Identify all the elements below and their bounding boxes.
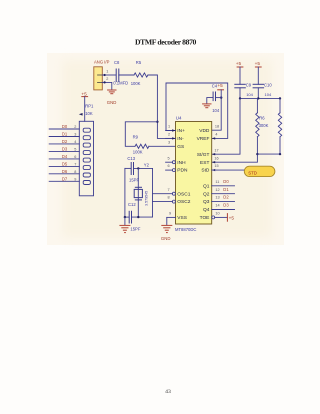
wire osc bottom node <box>125 216 129 218</box>
wire C4 left <box>215 97 221 99</box>
svg-text:EST: EST <box>200 160 209 166</box>
power +5 above C10 <box>255 61 262 85</box>
svg-text:Q3: Q3 <box>203 199 210 205</box>
svg-text:9: 9 <box>169 212 171 216</box>
svg-text:D7: D7 <box>62 176 68 181</box>
wire VSS to ground <box>166 217 168 224</box>
capacitor C10 <box>253 84 264 88</box>
svg-text:3: 3 <box>74 133 76 137</box>
wire osc left vertical <box>124 168 126 217</box>
wire D3 <box>49 150 79 152</box>
crystal Y2 <box>134 168 142 217</box>
capacitor C8 <box>116 69 119 82</box>
RP1 element 1 <box>83 128 90 132</box>
resistor R7 top lead <box>279 98 281 112</box>
ground under J1 <box>108 90 116 94</box>
scanned schematic cream background <box>47 53 284 245</box>
wire osc right vertical <box>152 168 154 217</box>
connector J1 ANG I/P body <box>94 67 103 90</box>
wire to OSC2 pin <box>153 201 173 203</box>
svg-text:D1: D1 <box>223 187 229 192</box>
svg-text:2: 2 <box>106 77 108 81</box>
wire D7 <box>49 180 79 182</box>
pin arrow EST <box>212 161 215 163</box>
svg-text:INH: INH <box>177 160 186 166</box>
svg-text:2: 2 <box>168 133 170 137</box>
svg-text:10: 10 <box>215 212 219 216</box>
svg-text:VREF: VREF <box>197 136 210 142</box>
svg-text:R5: R5 <box>136 60 142 65</box>
wire C8 to R5 <box>119 74 134 76</box>
wire IN+ to VREF loop <box>166 83 228 138</box>
svg-text:+5: +5 <box>81 92 87 97</box>
ground under crystal <box>120 217 130 233</box>
pin stub PDN <box>166 169 173 171</box>
svg-text:IN+: IN+ <box>177 128 185 134</box>
node bus left <box>239 97 241 99</box>
svg-text:IN-: IN- <box>177 136 184 142</box>
svg-text:D5: D5 <box>62 161 68 166</box>
wire D6 <box>49 173 79 175</box>
svg-text:DTMF decoder 8870: DTMF decoder 8870 <box>135 38 197 47</box>
wire C10 to bus <box>257 88 259 99</box>
svg-text:R9: R9 <box>133 135 139 140</box>
svg-text:6: 6 <box>74 155 76 159</box>
svg-text:4: 4 <box>74 140 76 144</box>
RP1 element 3 <box>83 143 90 147</box>
svg-text:STD: STD <box>248 170 257 175</box>
svg-text:OSC1: OSC1 <box>177 191 190 197</box>
wire C13 to crystal top <box>134 167 153 169</box>
svg-text:7: 7 <box>74 162 76 166</box>
svg-text:PDN: PDN <box>177 168 188 174</box>
wire C4 to ground <box>207 98 213 103</box>
pin stub IN- <box>166 137 176 139</box>
svg-text:St/GT: St/GT <box>197 152 210 158</box>
svg-text:U4: U4 <box>176 116 182 121</box>
svg-text:9: 9 <box>74 177 76 181</box>
svg-text:3: 3 <box>168 140 170 144</box>
wire Q1 <box>212 185 235 187</box>
wire Q4 <box>212 209 235 211</box>
pin arrow StGT <box>212 153 215 155</box>
svg-text:300K: 300K <box>259 123 269 128</box>
svg-text:GND: GND <box>161 236 171 241</box>
power +5 above RP1 <box>81 92 87 122</box>
RP1 element 6 <box>83 166 90 170</box>
svg-text:Q4: Q4 <box>203 207 210 213</box>
svg-text:StD: StD <box>201 168 210 174</box>
pin circle OSC2 <box>172 200 175 203</box>
svg-text:14: 14 <box>215 204 219 208</box>
svg-text:GS: GS <box>177 144 184 150</box>
IC pin names left <box>177 128 190 221</box>
power +5 above C9 <box>236 61 243 85</box>
pin arrow IN- <box>172 137 175 139</box>
pin stub INH <box>166 161 173 163</box>
resistor R5 <box>134 73 148 77</box>
svg-text:8: 8 <box>168 196 170 200</box>
resistor R6 top lead <box>256 98 258 112</box>
pin arrow IN+ <box>172 129 175 131</box>
svg-text:C12: C12 <box>128 202 136 207</box>
svg-text:+5: +5 <box>255 61 261 66</box>
wire TOE to +5 <box>215 216 228 218</box>
node at J1 pin2 <box>104 81 106 83</box>
svg-text:+5: +5 <box>229 215 235 220</box>
wire Q3 <box>212 201 235 203</box>
connector J1 pin 1 dash <box>98 74 103 76</box>
wire R6 bottom to EST <box>212 137 258 162</box>
wire VDD pin up <box>212 98 222 131</box>
svg-text:Y2: Y2 <box>144 162 150 167</box>
RP1 element 2 <box>83 136 90 140</box>
wire C9 to bus <box>239 88 241 99</box>
svg-text:GND: GND <box>107 100 117 105</box>
node crystal bottom <box>137 216 139 218</box>
connector J1 pin 2 dash <box>98 81 103 83</box>
wire D2 <box>49 143 79 145</box>
resistor pack RP1 body <box>79 121 93 196</box>
RP1 element 4 <box>83 151 90 155</box>
power +5 above C4 <box>217 83 223 98</box>
svg-text:5: 5 <box>168 156 170 160</box>
power +5 at TOE <box>227 214 234 222</box>
svg-text:104: 104 <box>212 108 220 113</box>
svg-text:13: 13 <box>215 196 219 200</box>
ground under VSS <box>162 225 172 232</box>
wire D4 <box>49 158 79 160</box>
wire Q2 <box>212 193 235 195</box>
svg-text:8: 8 <box>74 170 76 174</box>
node C4 <box>220 96 222 98</box>
node R6 StGT link <box>256 153 258 155</box>
capacitor C12 <box>129 211 131 223</box>
pin circle TOE <box>212 216 215 219</box>
svg-text:D3: D3 <box>223 203 229 208</box>
svg-text:C9: C9 <box>246 83 252 88</box>
svg-text:D4: D4 <box>62 154 68 159</box>
node at J1 pin1 <box>104 74 106 76</box>
pin arrow VREF <box>212 137 215 139</box>
svg-text:100K: 100K <box>131 81 141 86</box>
wire to OSC1 pin <box>153 193 173 195</box>
svg-text:TOE: TOE <box>200 215 210 221</box>
svg-text:VDD: VDD <box>199 128 210 134</box>
svg-text:VSS: VSS <box>177 215 187 221</box>
svg-text:ANG I/P: ANG I/P <box>94 60 110 65</box>
pin circle INH <box>172 161 175 164</box>
svg-text:7: 7 <box>168 188 170 192</box>
wire C12 to crystal bottom <box>132 216 153 218</box>
wire J1 pin2 to ground <box>102 82 112 89</box>
svg-text:10K: 10K <box>85 111 93 116</box>
resistor R7 bottom lead <box>279 137 281 154</box>
wire J1 pin1 to C8 <box>102 74 116 76</box>
svg-text:C13: C13 <box>127 156 135 161</box>
svg-text:RP1: RP1 <box>85 103 94 108</box>
RP1 element 8 <box>83 181 90 185</box>
node R9 branch <box>156 121 158 123</box>
RP1 pin1 arrow <box>79 113 83 116</box>
svg-text:104: 104 <box>265 92 272 97</box>
pin arrow STD <box>212 169 215 171</box>
pin stub IN+ <box>166 130 176 132</box>
svg-text:+5: +5 <box>217 83 223 88</box>
svg-text:16: 16 <box>214 156 218 160</box>
wire D1 <box>49 136 79 138</box>
svg-text:104: 104 <box>246 92 253 97</box>
svg-text:OSC2: OSC2 <box>177 199 190 205</box>
svg-text:D0: D0 <box>223 179 229 184</box>
wire R9 to GS pin <box>149 145 176 147</box>
pin circle OSC1 <box>172 192 175 195</box>
capacitor C13 <box>131 163 133 175</box>
ground under C4 <box>203 104 211 108</box>
svg-text:D0: D0 <box>62 124 68 129</box>
node R7 bottom <box>279 153 281 155</box>
wire R5 to IN- corner <box>148 75 176 138</box>
wire steering bus <box>240 97 280 99</box>
RP1 element 5 <box>83 158 90 162</box>
node osc ground <box>124 216 126 218</box>
svg-text:D6: D6 <box>62 169 68 174</box>
pin circle PDN <box>172 169 175 172</box>
wire R6 to R7 bottom <box>257 153 280 155</box>
svg-text:R6: R6 <box>259 115 265 120</box>
capacitor C9 <box>235 84 246 88</box>
wire STD to port <box>212 169 245 171</box>
pin stub VSS <box>167 216 176 218</box>
svg-text:3.579545: 3.579545 <box>145 191 149 206</box>
svg-text:C8: C8 <box>114 60 120 65</box>
svg-text:0.1MFD: 0.1MFD <box>113 81 128 86</box>
node bus middle <box>257 97 259 99</box>
svg-text:2: 2 <box>74 125 76 129</box>
svg-text:4: 4 <box>215 133 217 137</box>
svg-text:6: 6 <box>168 164 170 168</box>
svg-text:MT8870DC: MT8870DC <box>175 227 196 232</box>
wire D5 <box>49 165 79 167</box>
node bus right <box>279 97 281 99</box>
svg-text:1: 1 <box>106 70 108 74</box>
wire D0 <box>49 128 79 130</box>
svg-text:100K: 100K <box>133 150 143 155</box>
svg-text:43: 43 <box>165 389 171 395</box>
wire R9 branch <box>125 122 157 147</box>
svg-text:15: 15 <box>214 164 218 168</box>
port STD <box>244 166 275 176</box>
svg-text:17: 17 <box>214 148 218 152</box>
node crystal top <box>137 167 139 169</box>
svg-text:D1: D1 <box>62 132 68 137</box>
svg-text:C10: C10 <box>264 83 272 88</box>
svg-text:D2: D2 <box>223 195 229 200</box>
svg-text:Q2: Q2 <box>203 191 210 197</box>
svg-text:18: 18 <box>215 124 219 128</box>
svg-text:15PF: 15PF <box>130 227 140 232</box>
resistor R6 <box>256 113 259 137</box>
resistor R9 <box>135 144 149 148</box>
svg-text:D3: D3 <box>62 146 68 151</box>
svg-text:D2: D2 <box>62 139 68 144</box>
svg-text:+5: +5 <box>236 61 242 66</box>
svg-text:11: 11 <box>215 180 219 184</box>
svg-text:Q1: Q1 <box>203 183 210 189</box>
wire osc top node <box>125 167 131 169</box>
RP1 element 7 <box>83 173 90 177</box>
IC pin names right <box>197 128 210 221</box>
resistor R7 <box>278 113 281 137</box>
svg-text:12: 12 <box>215 188 219 192</box>
op IC U4 body <box>176 122 212 225</box>
wire bus down to StGT <box>212 98 240 154</box>
svg-text:1: 1 <box>168 125 170 129</box>
capacitor C4 <box>213 92 215 101</box>
svg-text:5: 5 <box>74 147 76 151</box>
